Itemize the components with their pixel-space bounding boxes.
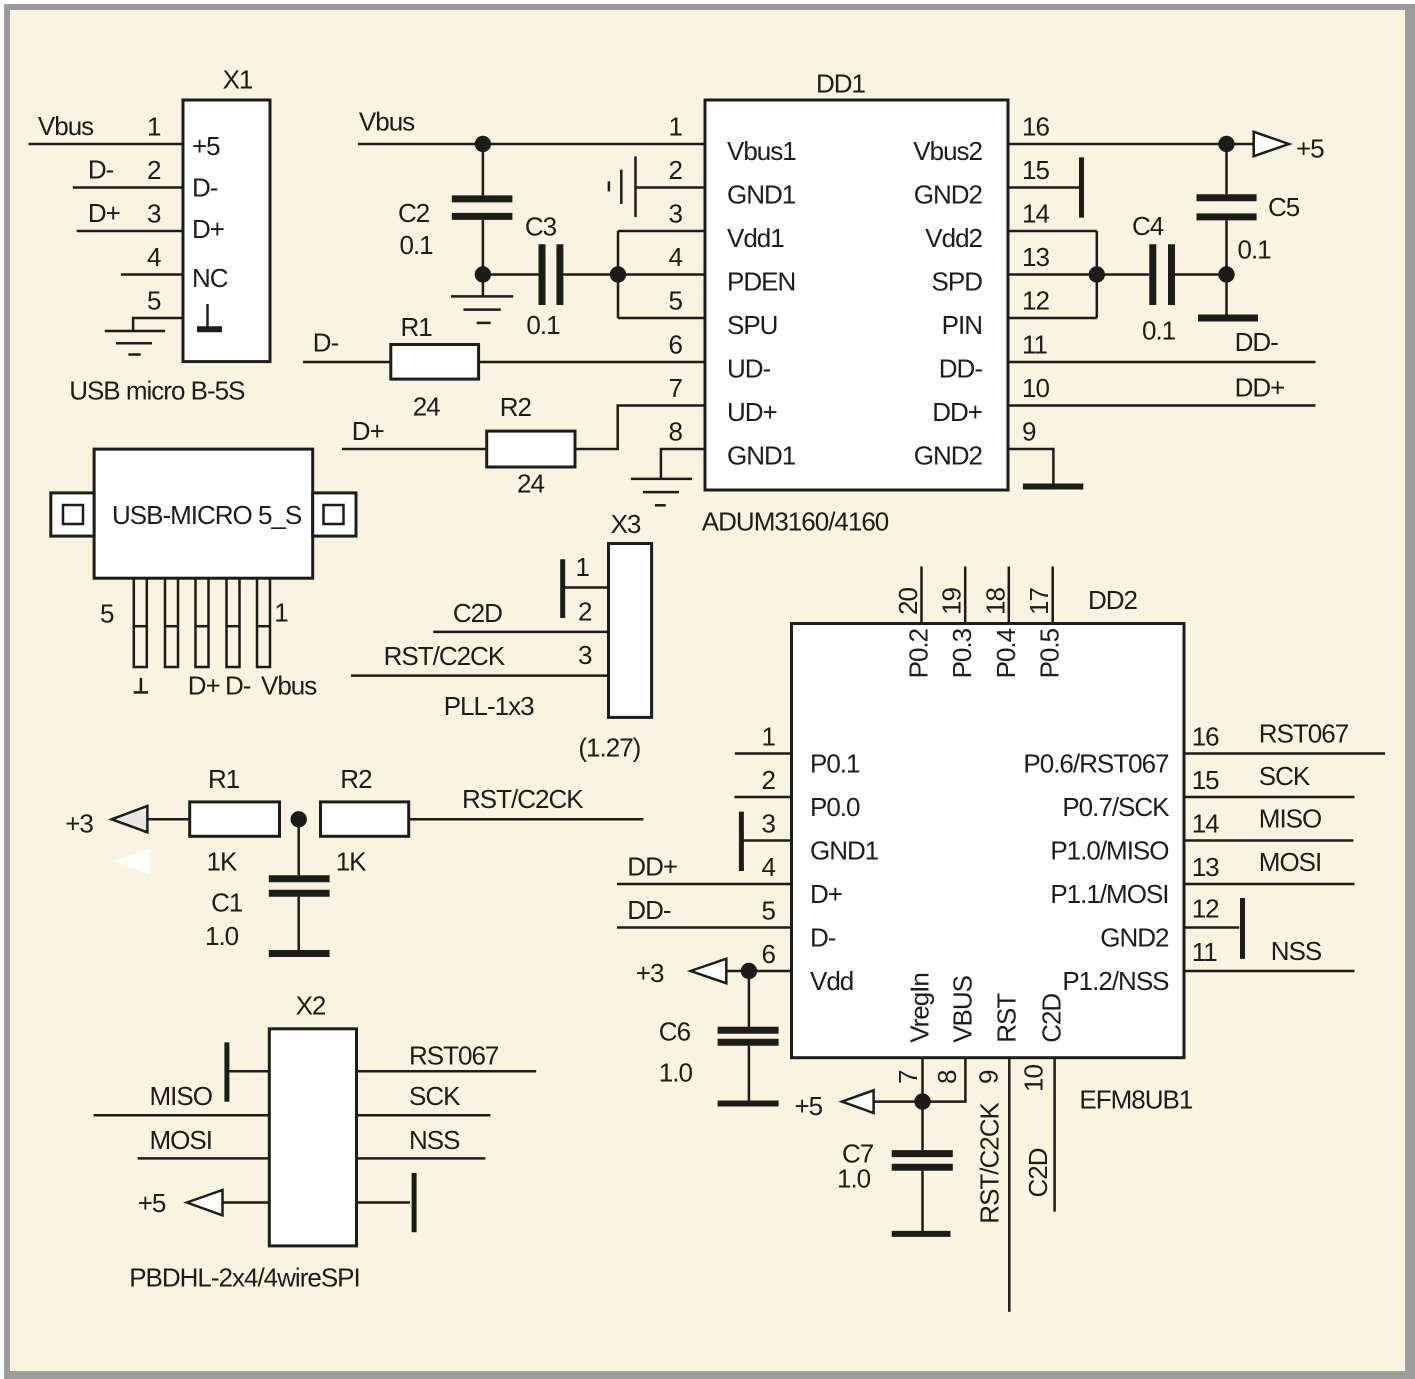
svg-text:18: 18 [980, 588, 1010, 615]
svg-text:GND2: GND2 [1100, 923, 1169, 953]
svg-text:D+: D+ [88, 198, 120, 228]
X1 pin 2 wire [73, 186, 183, 189]
svg-text:24: 24 [517, 469, 544, 499]
footprint left mount tab [51, 493, 94, 536]
DD1 pin 9 ground [1008, 449, 1083, 487]
wire DD1 pin 11 (DD-) [1008, 361, 1316, 364]
X2 left row 3 wire (MOSI) [138, 1157, 270, 1160]
ground bar at DD1 pin 15 [1079, 157, 1084, 217]
DD1 left pin names [727, 136, 796, 471]
wire D- to R1 [303, 361, 391, 364]
footprint right tab hole [324, 505, 344, 524]
connector X1 body [183, 100, 270, 362]
svg-text:USB micro B-5S: USB micro B-5S [69, 375, 245, 405]
wire DD1 pin 10 (DD+) [1008, 404, 1316, 407]
svg-text:RST067: RST067 [1259, 718, 1349, 748]
svg-text:C2D: C2D [453, 598, 502, 628]
svg-text:PLL-1x3: PLL-1x3 [444, 691, 534, 721]
X2 right row 2 wire (SCK) [357, 1114, 491, 1117]
svg-text:3: 3 [578, 640, 592, 670]
svg-text:DD-: DD- [627, 895, 671, 925]
wire DD2 pin 13 (MOSI) [1184, 883, 1355, 886]
svg-text:MISO: MISO [1259, 803, 1321, 833]
svg-text:9: 9 [973, 1070, 1003, 1084]
DD2 pin 12 stub [1184, 926, 1239, 929]
svg-text:RST/C2CK: RST/C2CK [975, 1101, 1005, 1223]
resistor R1 (1K) body [190, 802, 280, 836]
svg-text:9: 9 [1022, 417, 1036, 447]
svg-text:13: 13 [1192, 852, 1219, 882]
DD1 left pin numbers [669, 112, 683, 447]
svg-text:C6: C6 [659, 1017, 691, 1047]
resistor R1 (24) body [391, 345, 479, 380]
DD1 pin 12 wire [1008, 317, 1097, 320]
svg-text:2: 2 [762, 765, 776, 795]
svg-text:+5: +5 [138, 1188, 166, 1218]
svg-text:P1.2/NSS: P1.2/NSS [1062, 966, 1169, 996]
svg-text:MOSI: MOSI [150, 1125, 212, 1155]
junction C3/pin4 [610, 266, 626, 282]
footprint left tab hole [63, 505, 83, 524]
DD1 pins 3-5 bracket wire [617, 231, 620, 318]
svg-text:1: 1 [762, 722, 776, 752]
resistor R2 (24) body [487, 431, 575, 467]
svg-text:D+: D+ [188, 671, 220, 701]
svg-text:P0.1: P0.1 [810, 749, 860, 779]
DD2 pin 17 wire [1051, 567, 1054, 624]
capacitor C6 [718, 971, 779, 1104]
svg-text:D-: D- [88, 155, 114, 185]
svg-text:X2: X2 [296, 991, 326, 1021]
DD1 pin 8 ground [631, 449, 705, 505]
svg-text:PBDHL-2x4/4wireSPI: PBDHL-2x4/4wireSPI [129, 1263, 360, 1293]
svg-text:0.1: 0.1 [400, 230, 434, 260]
junction bracket/C4 [1089, 266, 1105, 282]
svg-text:10: 10 [1022, 373, 1049, 403]
junction pin16/C5 [1218, 136, 1234, 152]
svg-text:P1.0/MISO: P1.0/MISO [1050, 836, 1168, 866]
svg-text:RST067: RST067 [409, 1040, 499, 1070]
power arrow +5 (DD2) [842, 1090, 874, 1113]
svg-text:C3: C3 [525, 212, 557, 242]
svg-text:R2: R2 [340, 764, 372, 794]
svg-text:Vdd2: Vdd2 [925, 223, 982, 253]
wire R1 to DD1 pin 6 [479, 361, 705, 364]
svg-text:1.0: 1.0 [205, 921, 239, 951]
svg-text:SCK: SCK [1259, 761, 1311, 791]
svg-text:PDEN: PDEN [727, 267, 795, 297]
svg-text:P0.7/SCK: P0.7/SCK [1062, 792, 1170, 822]
DD1 right pin numbers [1022, 112, 1049, 447]
svg-text:14: 14 [1022, 199, 1049, 229]
wire DD2 pin 16 (RST067) [1184, 752, 1385, 755]
DD2 pin 2 wire [734, 796, 791, 799]
svg-text:Vbus: Vbus [38, 111, 94, 141]
svg-text:C2D: C2D [1037, 994, 1067, 1043]
svg-text:SPD: SPD [932, 267, 983, 297]
svg-text:7: 7 [669, 373, 683, 403]
junction C4/C5 [1218, 266, 1234, 282]
svg-text:GND1: GND1 [727, 180, 796, 210]
svg-text:Vdd: Vdd [810, 966, 853, 996]
ground bar under C5 [1198, 275, 1258, 319]
svg-text:D+: D+ [192, 214, 224, 244]
DD1 pin 14 wire [1008, 230, 1097, 233]
svg-text:DD-: DD- [1235, 327, 1279, 357]
svg-text:NSS: NSS [409, 1125, 460, 1155]
connector X3 body [609, 544, 652, 718]
junction Vbus/C2 [475, 136, 491, 152]
DD1 pin 15 stub [1008, 186, 1080, 189]
resistor R2 (1K) body [321, 802, 409, 836]
ground at X1 pin 5 [105, 331, 165, 355]
svg-text:DD1: DD1 [816, 69, 866, 99]
svg-text:C1: C1 [211, 887, 243, 917]
svg-text:6: 6 [669, 330, 683, 360]
svg-text:13: 13 [1022, 242, 1049, 272]
wire R2 to DD1 pin 7 [575, 406, 705, 450]
X3 pin 2 wire [433, 631, 608, 634]
wire Vbus to DD1 pin 1 [358, 143, 705, 146]
DD1 pin 13 wire [1008, 273, 1097, 276]
svg-text:D-: D- [225, 671, 251, 701]
svg-text:X3: X3 [611, 509, 641, 539]
svg-text:5: 5 [100, 599, 114, 629]
svg-text:4: 4 [762, 852, 776, 882]
svg-text:8: 8 [669, 417, 683, 447]
junction R1/R2/C1 [291, 811, 307, 827]
svg-text:MOSI: MOSI [1259, 847, 1321, 877]
svg-text:PIN: PIN [942, 310, 982, 340]
svg-text:1: 1 [576, 552, 590, 582]
svg-text:DD+: DD+ [627, 852, 677, 882]
svg-text:UD-: UD- [727, 354, 771, 384]
svg-text:GND1: GND1 [727, 441, 796, 471]
svg-text:0.1: 0.1 [1142, 315, 1176, 345]
svg-text:P0.6/RST067: P0.6/RST067 [1023, 749, 1169, 779]
DD2 pin 19 wire [964, 567, 967, 624]
svg-text:3: 3 [762, 809, 776, 839]
capacitor C7 [892, 1102, 953, 1234]
svg-text:C5: C5 [1268, 192, 1300, 222]
footprint pin 2 pad [227, 578, 240, 667]
X1 pin 4 wire [121, 273, 183, 276]
svg-text:6: 6 [762, 939, 776, 969]
wire DD2 pin 14 (MISO) [1184, 839, 1353, 842]
svg-text:2: 2 [578, 597, 592, 627]
wire +5 arrow to junction [874, 1100, 923, 1103]
svg-text:17: 17 [1024, 588, 1054, 615]
wire +5 arrow to X2 [223, 1201, 270, 1204]
X1 pin 3 wire [77, 230, 183, 233]
svg-text:Vbus1: Vbus1 [727, 136, 796, 166]
svg-text:1K: 1K [207, 846, 238, 876]
DD2 pin 5 wire (DD-) [617, 926, 792, 929]
footprint pin 3 pad [196, 578, 209, 667]
svg-text:P0.2: P0.2 [904, 628, 934, 678]
svg-text:Vdd1: Vdd1 [727, 223, 784, 253]
svg-text:1K: 1K [336, 846, 367, 876]
svg-text:VregIn: VregIn [905, 973, 935, 1043]
svg-text:3: 3 [147, 199, 161, 229]
svg-text:8: 8 [932, 1070, 962, 1084]
svg-text:P0.3: P0.3 [947, 628, 977, 678]
junction C2/C3 [475, 266, 491, 282]
svg-text:4: 4 [669, 242, 683, 272]
svg-text:3: 3 [669, 199, 683, 229]
svg-text:ADUM3160/4160: ADUM3160/4160 [702, 507, 889, 537]
svg-text:14: 14 [1192, 809, 1219, 839]
svg-text:DD-: DD- [939, 354, 983, 384]
svg-text:11: 11 [1022, 330, 1048, 360]
ground under C2 [451, 275, 513, 323]
rotated ground at DD1 pin 2 [609, 156, 705, 217]
svg-text:1: 1 [669, 112, 683, 142]
footprint right mount tab [313, 493, 356, 536]
svg-text:0.1: 0.1 [1238, 235, 1272, 265]
wire DD2 pin 15 (SCK) [1184, 796, 1355, 799]
DD2 top pin names P0.2-P0.5 [904, 628, 1065, 678]
ground bar at X3 pin 1 [560, 559, 565, 618]
capacitor C5 [1197, 144, 1257, 275]
svg-text:5: 5 [147, 286, 161, 316]
footprint pin 1 pad [257, 578, 270, 667]
svg-text:X1: X1 [223, 65, 253, 95]
power arrow +3 (divider) [112, 806, 148, 832]
DD2 pin 8 wire (VBUS) [923, 1058, 966, 1102]
ground bar at X2 left row 1 [224, 1042, 229, 1101]
DD2 pin 7 wire (VregIn) [921, 1058, 924, 1102]
svg-text:12: 12 [1192, 894, 1219, 924]
svg-text:1: 1 [274, 597, 288, 627]
DD2 right pin names [1023, 749, 1170, 997]
X2 left row 1 stub [227, 1070, 269, 1073]
wire D+ to R2 [342, 448, 487, 451]
svg-text:P1.1/MOSI: P1.1/MOSI [1050, 879, 1168, 909]
svg-text:Vbus: Vbus [359, 107, 415, 137]
svg-text:UD+: UD+ [727, 397, 777, 427]
svg-text:10: 10 [1018, 1065, 1048, 1092]
DD2 bottom pin names VregIn VBUS RST C2D [905, 973, 1067, 1043]
svg-text:2: 2 [147, 155, 161, 185]
DD1 pin 5 wire [618, 317, 705, 320]
IC DD2 body [792, 624, 1185, 1058]
capacitor C4 [1097, 244, 1227, 305]
svg-text:GND2: GND2 [914, 441, 983, 471]
svg-text:16: 16 [1192, 722, 1219, 752]
svg-text:7: 7 [893, 1070, 923, 1084]
X1 internal ground pin symbol [197, 304, 222, 329]
svg-text:5: 5 [762, 896, 776, 926]
svg-text:5: 5 [669, 286, 683, 316]
wire R2 to RST/C2CK [409, 818, 644, 821]
power arrow +5 (DD1) [1254, 132, 1289, 156]
DD2 pin 9 wire (RST) [1008, 1058, 1011, 1312]
svg-text:P0.4: P0.4 [991, 628, 1021, 678]
svg-text:GND2: GND2 [914, 180, 983, 210]
DD1 pin 4 wire [618, 273, 705, 276]
svg-text:SPU: SPU [727, 310, 777, 340]
svg-text:16: 16 [1022, 112, 1049, 142]
svg-text:C2D: C2D [1023, 1148, 1053, 1197]
ghost arrow artifact [114, 849, 151, 875]
svg-text:+5: +5 [795, 1091, 823, 1121]
footprint ground pin symbol [134, 678, 148, 693]
ground bar at DD2 pin 12 [1240, 898, 1245, 959]
svg-text:C2: C2 [398, 198, 430, 228]
capacitor C2 [452, 144, 513, 275]
svg-text:DD2: DD2 [1088, 585, 1138, 615]
svg-text:D-: D- [810, 923, 836, 953]
svg-text:+3: +3 [65, 808, 93, 838]
DD1 right pin names [913, 136, 982, 471]
svg-text:2: 2 [669, 155, 683, 185]
svg-text:USB-MICRO 5_S: USB-MICRO 5_S [112, 500, 302, 530]
svg-text:15: 15 [1192, 765, 1219, 795]
svg-text:GND1: GND1 [810, 836, 879, 866]
svg-text:EFM8UB1: EFM8UB1 [1079, 1084, 1192, 1114]
svg-text:20: 20 [893, 588, 923, 615]
svg-text:C4: C4 [1132, 211, 1164, 241]
ground bar at X2 right row 4 [412, 1173, 417, 1232]
DD2 pin 1 wire [735, 752, 792, 755]
svg-text:(1.27): (1.27) [578, 733, 640, 763]
X2 right row 4 stub [357, 1201, 411, 1204]
connector X2 body [269, 1029, 356, 1246]
wire +3 arrow to R1 [147, 818, 189, 821]
X2 left row 2 wire (MISO) [94, 1114, 270, 1117]
DD1 pin 3 wire [618, 230, 705, 233]
svg-text:DD+: DD+ [1235, 373, 1285, 403]
wire DD1 pin 16 to +5 [1008, 143, 1254, 146]
svg-text:NC: NC [192, 263, 228, 293]
power arrow +5 (X2) [187, 1190, 223, 1215]
capacitor C3 [483, 244, 618, 305]
svg-text:19: 19 [937, 588, 967, 615]
svg-text:+5: +5 [1296, 133, 1324, 163]
DD2 pin 6 wire (Vdd) [726, 970, 791, 973]
svg-text:P0.0: P0.0 [810, 792, 860, 822]
footprint USB-MICRO 5_S body [94, 449, 313, 578]
ground bar at DD2 pin 3 [739, 812, 744, 871]
svg-text:P0.5: P0.5 [1035, 628, 1065, 678]
junction +5/C7 [914, 1093, 930, 1109]
svg-text:R1: R1 [208, 764, 240, 794]
power arrow +3 (DD2) [691, 959, 727, 984]
svg-text:1.0: 1.0 [659, 1057, 693, 1087]
svg-text:R2: R2 [500, 392, 532, 422]
svg-text:4: 4 [147, 242, 161, 272]
DD2 pin 20 wire [920, 567, 923, 624]
DD2 pin 4 wire (DD+) [617, 883, 792, 886]
svg-text:D+: D+ [810, 879, 842, 909]
svg-text:RST/C2CK: RST/C2CK [384, 641, 506, 671]
DD2 pin 10 wire (C2D) [1053, 1058, 1056, 1212]
X1 pin 5 wire [133, 318, 183, 331]
svg-text:NSS: NSS [1271, 936, 1322, 966]
X2 right row 1 wire (RST067) [357, 1070, 537, 1073]
svg-text:1.0: 1.0 [837, 1164, 871, 1194]
DD2 pin 3 stub [741, 839, 791, 842]
svg-text:24: 24 [413, 392, 440, 422]
svg-text:SCK: SCK [409, 1081, 461, 1111]
svg-text:11: 11 [1192, 937, 1218, 967]
svg-text:D-: D- [313, 328, 339, 358]
svg-text:+3: +3 [636, 958, 664, 988]
svg-text:15: 15 [1022, 155, 1049, 185]
X3 pin 1 stub [565, 586, 609, 589]
IC DD1 body [705, 100, 1008, 490]
X1 pin 1 wire [29, 143, 184, 146]
svg-text:VBUS: VBUS [947, 975, 977, 1042]
svg-text:RST/C2CK: RST/C2CK [462, 784, 584, 814]
footprint pin 4 pad [165, 578, 178, 667]
junction Vdd/C6 [741, 963, 757, 979]
svg-text:12: 12 [1022, 286, 1049, 316]
DD2 pin 18 wire [1008, 567, 1011, 624]
DD2 left pin names [810, 749, 879, 997]
footprint pin 5 pad [134, 578, 147, 667]
svg-text:MISO: MISO [150, 1081, 212, 1111]
svg-text:0.1: 0.1 [526, 310, 560, 340]
svg-text:Vbus: Vbus [261, 671, 317, 701]
svg-text:1: 1 [147, 112, 161, 142]
X3 pin 3 wire [351, 674, 609, 677]
svg-text:D-: D- [192, 173, 218, 203]
wire DD2 pin 11 (NSS) [1184, 970, 1355, 973]
capacitor C1 [269, 819, 330, 953]
svg-text:Vbus2: Vbus2 [913, 136, 982, 166]
X2 right row 3 wire (NSS) [357, 1157, 486, 1160]
svg-text:+5: +5 [192, 131, 220, 161]
DD1 pins 14-12 bracket wire [1096, 231, 1099, 318]
svg-text:DD+: DD+ [932, 397, 982, 427]
svg-text:D+: D+ [352, 416, 384, 446]
svg-text:R1: R1 [401, 312, 433, 342]
svg-text:RST: RST [991, 993, 1021, 1043]
